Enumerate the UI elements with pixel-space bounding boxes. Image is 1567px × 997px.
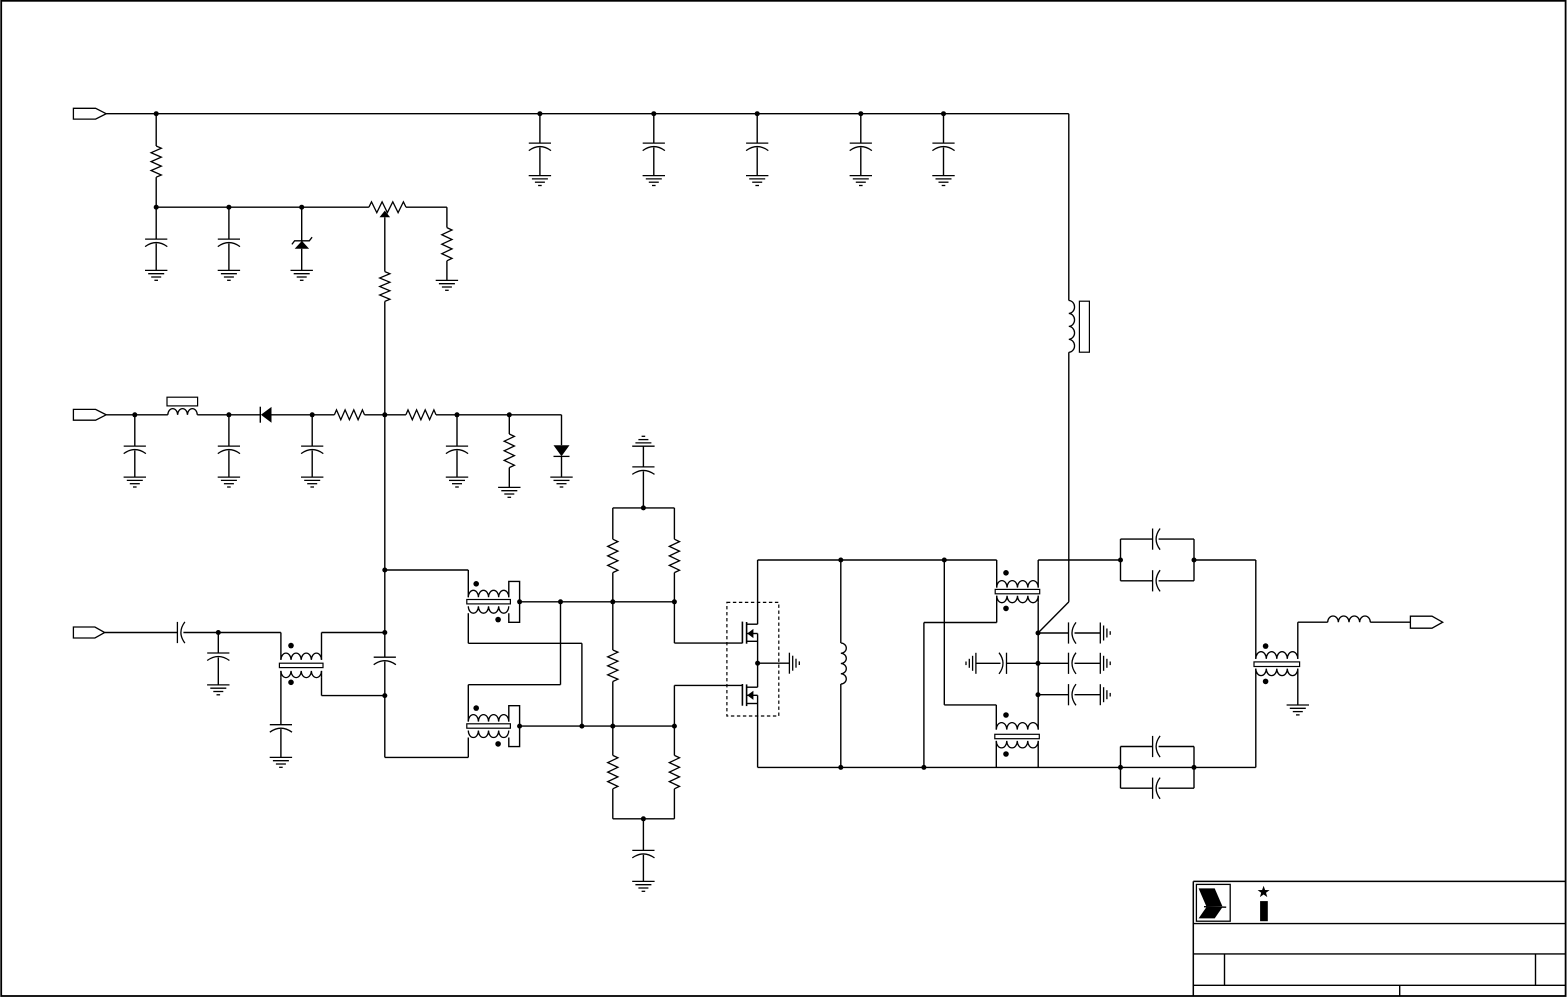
wire: supply rail drop (right side)	[1068, 114, 1070, 301]
ground (C3)	[529, 176, 551, 186]
T2 secondary polarity dot	[495, 617, 501, 623]
resistor R5	[334, 410, 364, 420]
T5 primary polarity dot	[1003, 712, 1009, 718]
wire: top supply rail	[106, 113, 1069, 115]
capacitor C13	[207, 633, 229, 685]
ground (C18, rotated)	[1100, 623, 1110, 644]
node: T3 output	[517, 724, 522, 729]
node on top rail at R1	[154, 111, 159, 116]
wire: top rail T4 to cap block	[1038, 559, 1120, 561]
node: cross-link joins lower gate line	[579, 724, 584, 729]
resistor R1 (series from rail to bias node)	[151, 114, 161, 208]
node at C13	[216, 630, 221, 635]
node on top rail at C3	[537, 111, 542, 116]
T1 primary polarity dot	[288, 643, 294, 649]
wire: upper gate tap to Q1	[674, 602, 742, 643]
ground (D1)	[291, 270, 313, 280]
capacitor C18 (tee to ground)	[1038, 622, 1100, 643]
wire: L1 to D2	[197, 414, 260, 416]
wire: R6 to corner	[436, 414, 562, 416]
node: top rail out of cap pair	[1192, 558, 1197, 563]
ground (C10)	[301, 477, 323, 487]
T3 primary polarity dot	[473, 705, 479, 711]
wire: C12 to T1	[183, 632, 281, 634]
node: upper gate at R9	[672, 599, 677, 604]
ground (C2)	[218, 270, 240, 280]
ground (C1)	[145, 270, 167, 280]
wire: Q2 drain to centre tap	[757, 663, 759, 687]
resistor R9	[669, 508, 679, 602]
resistor R8	[608, 508, 618, 602]
resistor R4 (pot wiper series)	[380, 217, 390, 414]
capacitor C24 (series pair bottom branch)	[1121, 778, 1195, 799]
node: T2 output	[517, 599, 522, 604]
capacitor C3 (rail bypass)	[529, 114, 551, 176]
transformer T5 secondary	[996, 741, 1038, 768]
wire: T4 secondary return	[924, 623, 997, 768]
transformer T3 secondary	[468, 731, 508, 738]
node: source/drain centre tap	[755, 661, 760, 666]
node: T3 feed tap	[558, 599, 563, 604]
capacitor C21 (series pair top branch)	[1121, 529, 1195, 581]
node: upper gate at R8	[610, 599, 615, 604]
transformer T3 core	[467, 724, 511, 728]
transformer T1 (input balun) primary	[281, 633, 322, 660]
wire: T6 to L2	[1298, 621, 1328, 623]
wire: R5 to R6	[365, 414, 406, 416]
ground (C19, rotated)	[966, 653, 976, 674]
node: tee at C20 / T5 feed	[1036, 692, 1041, 697]
transformer T4 (upper output) primary	[997, 560, 1039, 588]
resistor R3 (pot top leg to ground)	[442, 207, 452, 280]
capacitor C23 (series pair top branch)	[1121, 736, 1195, 788]
potentiometer R2	[369, 202, 447, 218]
node at C2	[226, 205, 231, 210]
transistor Q2 (lower MOSFET)	[742, 684, 757, 706]
transformer T2 core	[467, 600, 511, 604]
node A (bus joins T2 feed)	[382, 568, 387, 573]
wire: T1 secondary top lead	[280, 678, 282, 725]
ground (R7)	[498, 487, 520, 497]
resistor R12	[669, 726, 679, 819]
resistor R6	[406, 410, 436, 420]
ground (T6 secondary)	[1287, 705, 1309, 715]
logo box	[1196, 884, 1230, 921]
capacitor C15 (across T1 output)	[374, 633, 396, 696]
capacitor C4 (rail bypass)	[643, 114, 665, 176]
input connector J1 (top rail)	[73, 108, 106, 119]
ground (C14)	[270, 757, 292, 767]
T3 secondary polarity dot	[495, 741, 501, 747]
ground (C4)	[643, 176, 665, 186]
node on top rail at C7	[941, 111, 946, 116]
capacitor C2	[218, 207, 240, 270]
ground (D3)	[550, 477, 572, 487]
wire: drain loop bottom rail	[758, 766, 1256, 768]
capacitor C11	[446, 415, 468, 477]
capacitor C19b (tee to ground, right)	[1038, 653, 1100, 674]
node at C9	[226, 412, 231, 417]
T1 secondary polarity dot	[288, 680, 294, 686]
node: top rail at L4	[838, 558, 843, 563]
ground (C20, rotated)	[1100, 684, 1110, 705]
node: tee at C18	[1036, 631, 1041, 636]
wire: L2 to J4	[1370, 621, 1410, 623]
wire: top rail to T6	[1194, 559, 1256, 561]
transformer T2 primary	[468, 570, 508, 597]
title block frame	[1193, 881, 1566, 995]
transistor Q1 (upper MOSFET)	[742, 622, 757, 644]
ground (C5)	[746, 176, 768, 186]
resistor R10 (between gate lines)	[608, 602, 618, 726]
capacitor C14 (T1 return)	[270, 725, 292, 758]
resistor R7 (to ground)	[504, 415, 514, 488]
wire: bias network bottom rail	[613, 818, 675, 820]
wire: node B down to bottom tie	[385, 696, 469, 758]
node: wiper bus joins bias row	[382, 412, 387, 417]
ground (C6)	[850, 176, 872, 186]
ground (C8)	[124, 477, 146, 487]
diode D3 (to ground)	[554, 415, 570, 477]
capacitor C7 (rail bypass)	[932, 114, 954, 176]
wire: upper gate drive line	[520, 601, 675, 603]
transformer T4 secondary	[997, 596, 1039, 623]
ground (C13)	[207, 685, 229, 695]
node on top rail at C5	[755, 111, 760, 116]
inductor L2 (output series)	[1328, 616, 1371, 622]
T5 secondary polarity dot	[1003, 751, 1009, 757]
wire: lower gate drive line	[520, 725, 675, 727]
dashed outline: dual MOSFET package U1	[727, 602, 779, 716]
node on top rail at C6	[858, 111, 863, 116]
node at C10	[310, 412, 315, 417]
ground (C19b, rotated)	[1100, 653, 1110, 674]
wire: T1 primary out to node A	[322, 632, 385, 634]
node on top rail at C4	[651, 111, 656, 116]
capacitor C9	[218, 415, 240, 477]
capacitor C5 (rail bypass)	[746, 114, 768, 176]
wire: T3 secondary to bottom tie	[467, 738, 469, 758]
wire: T1 secondary bottom lead to node B	[322, 678, 385, 696]
transformer T6 core	[1254, 662, 1300, 667]
T2 series link bracket	[509, 581, 520, 622]
transformer T2 secondary	[468, 606, 508, 613]
capacitor C12 (series input)	[177, 622, 185, 643]
node: top rail at T5 feed	[942, 558, 947, 563]
node: bottom rail at L4	[838, 765, 843, 770]
ground (C9)	[218, 477, 240, 487]
node at C1	[154, 205, 159, 210]
inductor L3 with ferrite core (supply feed)	[1069, 301, 1090, 353]
transformer T1 core	[279, 663, 323, 667]
capacitor C1	[145, 207, 167, 270]
node at D1	[299, 205, 304, 210]
node: top rail centre	[641, 505, 646, 510]
node: lower gate at R12	[672, 724, 677, 729]
wire: bias node row	[156, 206, 369, 208]
node: lower gate at R10	[610, 724, 615, 729]
node at C15 top	[382, 630, 387, 635]
inductor L4 (shunt across drains)	[841, 560, 847, 767]
wire: T5 primary feed	[944, 560, 996, 705]
transformer T1 secondary	[281, 671, 322, 678]
wire: diagonal feed to output tee	[1038, 602, 1069, 633]
ground (C7)	[932, 176, 954, 186]
capacitor C20 (tee to ground)	[1038, 684, 1100, 705]
ground (C11)	[446, 477, 468, 487]
info bar marker	[1260, 901, 1268, 921]
wire: RF input to C12	[105, 632, 178, 634]
wire: bias input row	[106, 414, 168, 416]
ground (centre tap, rotated)	[789, 653, 799, 674]
T4 primary polarity dot	[1003, 570, 1009, 576]
T4 secondary polarity dot	[1003, 606, 1009, 612]
node at R7	[507, 412, 512, 417]
inductor L1 with ferrite bead	[167, 397, 198, 415]
wire: T2 feed from node A	[385, 569, 469, 571]
capacitor C8	[124, 415, 146, 477]
capacitor C6 (rail bypass)	[850, 114, 872, 176]
zener diode D1	[292, 207, 312, 270]
input connector J2 (gate bias input)	[73, 409, 106, 420]
T6 secondary polarity dot	[1263, 679, 1269, 685]
logo mark (chevron flag)	[1199, 888, 1227, 918]
transformer T6 (output balun) primary	[1256, 560, 1298, 659]
node: bottom rail into cap pair	[1118, 765, 1123, 770]
transformer T6 secondary	[1256, 669, 1298, 768]
node at C11	[455, 412, 460, 417]
capacitor C19 (tee to ground, left)	[976, 653, 1038, 674]
output connector J4 (RF output)	[1410, 616, 1442, 628]
node B (C15 bottom)	[382, 693, 387, 698]
star marker	[1258, 886, 1270, 897]
capacitor C17 (bottom bias)	[632, 819, 654, 882]
wire: T2 secondary to cross-link	[468, 613, 582, 643]
transformer T4 core	[995, 589, 1039, 593]
diode D2 (cathode left)	[260, 407, 271, 423]
ground (R3)	[436, 280, 458, 290]
T3 series link bracket	[509, 706, 520, 747]
input connector J3 (RF input)	[73, 627, 104, 638]
wire: lower gate tap to Q2	[674, 685, 742, 726]
T6 primary polarity dot	[1263, 643, 1269, 649]
node: bottom rail at T4 return	[921, 765, 926, 770]
node: top rail into cap pair	[1118, 558, 1123, 563]
wire: cross-link drop	[581, 643, 583, 726]
capacitor C22 (series pair bottom branch)	[1121, 570, 1195, 591]
transformer T5 core	[995, 734, 1040, 738]
wire: D2 to R5	[272, 414, 335, 416]
ground (C17)	[632, 881, 654, 891]
wire: Q1 source to centre tap	[757, 634, 759, 664]
wire: bias network top rail	[613, 507, 675, 509]
wire: output tee vertical	[1037, 603, 1039, 695]
wire: T3 feed riser	[468, 602, 560, 685]
node: bottom rail centre	[641, 816, 646, 821]
capacitor C10	[301, 415, 323, 477]
wire: centre tap to ground	[758, 663, 790, 767]
node: bottom rail out of cap pair	[1192, 765, 1197, 770]
wire: Q1 drain riser	[757, 560, 759, 624]
transformer T5 (lower output) primary	[996, 695, 1038, 730]
inverted ground (top bias)	[632, 436, 654, 446]
node: tee at C19	[1036, 661, 1041, 666]
T2 primary polarity dot	[473, 581, 479, 587]
node at C8	[132, 412, 137, 417]
transformer T3 primary	[468, 685, 508, 722]
wire: supply drop below L3	[1068, 352, 1070, 602]
wire: drain loop top rail	[758, 559, 997, 561]
resistor R11	[608, 726, 618, 819]
capacitor C16 (top bias)	[632, 446, 654, 508]
wire: wiper bus vertical	[384, 415, 386, 633]
